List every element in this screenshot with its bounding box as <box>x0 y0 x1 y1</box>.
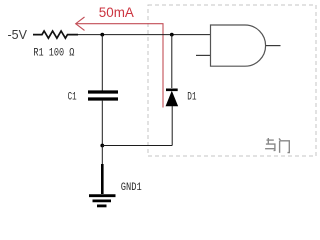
wire: C1 top lead <box>101 35 103 91</box>
wire: D1 bottom lead <box>171 106 173 146</box>
wire: gate output stub <box>266 45 281 47</box>
svg-text:GND1: GND1 <box>121 182 142 194</box>
resistor R1 <box>33 31 78 38</box>
svg-text:50mA: 50mA <box>99 5 134 20</box>
svg-text:-5V: -5V <box>8 28 28 42</box>
junction node at ground branch <box>100 144 104 148</box>
current value label 50mA <box>99 5 134 20</box>
label 与门 (AND gate, drawn as strokes) <box>265 138 289 153</box>
svg-text:R1 100 Ω: R1 100 Ω <box>33 47 74 59</box>
svg-text:D1: D1 <box>187 92 197 104</box>
value label R1 100 Ω <box>33 47 74 59</box>
wire: bottom return net <box>102 145 172 147</box>
ground GND1 stem <box>101 146 103 195</box>
AND gate U1 <box>211 25 266 66</box>
label C1 <box>68 91 77 103</box>
junction node at D1 branch <box>170 33 174 37</box>
net label -5V <box>8 28 28 42</box>
capacitor C1 <box>88 92 118 99</box>
wire: gate bottom input stub <box>196 54 211 56</box>
wire: C1 bottom lead <box>101 101 103 146</box>
current arrow 50mA <box>76 17 163 108</box>
wire: D1 top lead <box>171 35 173 88</box>
ground GND1 bars <box>89 196 116 206</box>
label GND1 <box>121 182 142 194</box>
junction node at C1 branch <box>100 33 104 37</box>
wire: main horizontal net from R1 to gate <box>78 34 211 36</box>
svg-text:C1: C1 <box>68 91 77 103</box>
diode D1 <box>166 90 178 106</box>
dashed box (AND gate region) <box>148 5 316 156</box>
label D1 <box>187 92 197 104</box>
